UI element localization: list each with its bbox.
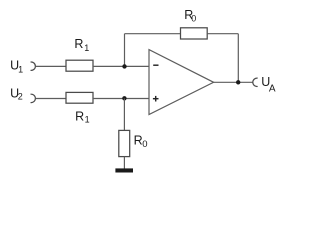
resistor R0 (to ground) [119,130,130,156]
op-amp plus input marker [153,98,159,100]
node A junction [122,64,126,68]
wire R1 to node B [93,98,149,100]
wire node A up to feedback [124,34,126,67]
resistor R0 (feedback) [181,28,208,39]
wire feedback left [125,33,181,35]
terminal UA [253,78,258,86]
svg-text:R: R [74,37,83,51]
wire node B down to R0 [123,99,125,131]
svg-text:0: 0 [191,13,196,23]
op-amp U1 triangle [149,50,214,115]
resistor R1 (top) [66,60,93,71]
output node junction [236,80,240,84]
svg-text:1: 1 [18,65,23,75]
resistor R1 (bottom) [66,92,93,103]
node B junction [122,96,126,100]
svg-text:R: R [75,109,84,123]
op-amp minus input marker [153,64,158,66]
terminal U2 [31,94,36,102]
svg-text:0: 0 [142,139,147,150]
wire R1 to node A [93,65,149,67]
svg-text:R: R [134,133,143,147]
terminal U1 [31,62,36,70]
svg-text:A: A [269,83,276,94]
wire R0 to ground [123,157,125,169]
svg-text:2: 2 [18,91,23,101]
ground [115,168,133,172]
svg-text:1: 1 [84,43,89,53]
wire U1 to R1 [35,65,66,67]
wire op-amp output [214,81,253,83]
wire feedback down to output [237,34,239,83]
wire U2 to R1 [35,98,66,100]
wire feedback right [207,33,238,35]
svg-text:1: 1 [85,115,90,125]
